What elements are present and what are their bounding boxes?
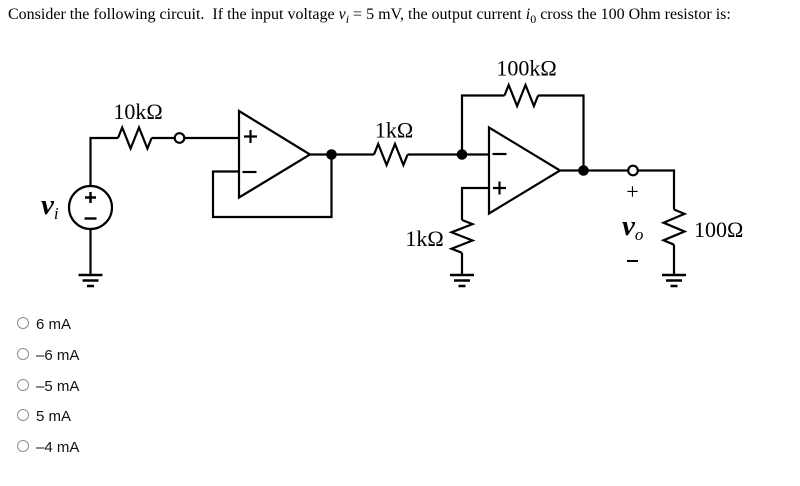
wire resistor to node <box>152 137 175 139</box>
node U2 output junction <box>578 165 589 176</box>
resistor R1 10k <box>118 128 152 149</box>
resistor R2 1k <box>374 144 408 165</box>
op-amp U2 <box>489 128 560 214</box>
wire node up to feedback resistor <box>462 96 505 155</box>
op-amp U1 <box>239 111 310 198</box>
label - output polarity <box>627 260 638 262</box>
svg-text:10kΩ: 10kΩ <box>113 99 162 124</box>
svg-text:1kΩ: 1kΩ <box>375 118 413 143</box>
wire feedback resistor down to output <box>538 96 583 171</box>
wire U1 output <box>310 153 374 155</box>
svg-text:vo: vo <box>622 210 643 244</box>
svg-text:vi: vi <box>41 189 59 223</box>
wire U1 feedback loop <box>213 155 332 218</box>
voltage source v_i <box>69 186 112 229</box>
svg-text:100Ω: 100Ω <box>694 217 743 242</box>
wire source bottom to ground <box>89 229 91 275</box>
wire source top to resistor <box>91 138 119 187</box>
ground G1 <box>79 275 103 286</box>
wire U2 output <box>560 169 628 171</box>
node U2 input junction <box>457 149 468 160</box>
wire R4 to ground <box>461 253 463 274</box>
wire R5 to ground <box>673 245 675 274</box>
node U1 output junction <box>326 149 337 160</box>
resistor R5 100 load <box>664 210 685 245</box>
wire node to op-amp U1 + input <box>184 137 239 139</box>
resistor R3 100k feedback <box>505 85 539 106</box>
node open terminal <box>175 133 185 143</box>
ground G3 <box>662 275 686 286</box>
ground G2 <box>450 275 474 286</box>
wire U2 + input to R4 <box>462 188 489 220</box>
svg-text:+: + <box>626 179 638 204</box>
svg-text:1kΩ: 1kΩ <box>405 226 443 251</box>
node output open terminal <box>628 166 638 176</box>
wire R2 to U2 inverting input <box>408 153 489 155</box>
wire terminal to load <box>638 171 674 210</box>
resistor R4 1k to ground <box>452 220 473 253</box>
svg-text:100kΩ: 100kΩ <box>496 56 556 81</box>
